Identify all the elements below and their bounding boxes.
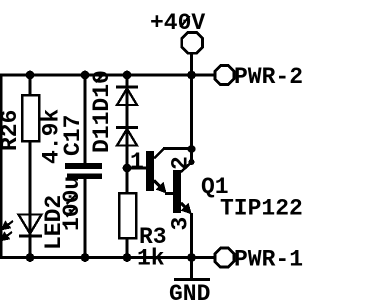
transistor Q1 base bar (first)	[146, 151, 154, 191]
junction dot top rail at collector	[187, 71, 196, 80]
LED LED2	[19, 215, 43, 237]
svg-text:GND: GND	[169, 281, 210, 307]
svg-text:2: 2	[168, 156, 194, 170]
resistor R26	[22, 95, 39, 141]
svg-text:PWR-1: PWR-1	[234, 247, 303, 273]
wire bottom rail	[0, 256, 216, 259]
junction dot bottom rail at R3	[123, 253, 132, 262]
capacitor C17 top plate	[65, 163, 102, 169]
junction dot bottom rail at LED	[26, 253, 35, 262]
wire R26 column top	[29, 75, 32, 96]
diode D10	[116, 128, 138, 146]
svg-text:C17: C17	[60, 115, 86, 156]
label +40V zero slash	[181, 16, 190, 27]
wire diode column	[126, 75, 129, 194]
svg-text:+40V: +40V	[150, 10, 205, 36]
wire PWR-2 stub	[192, 74, 217, 77]
transistor Q1 collector path (first)	[154, 149, 192, 159]
capacitor C17 bottom plate	[67, 174, 102, 180]
wire +40V terminal stub	[191, 32, 194, 53]
ground symbol bar	[174, 278, 210, 281]
transistor Q1 emitter (first) with arrow	[154, 181, 165, 192]
svg-text:LED2: LED2	[41, 195, 67, 250]
svg-text:1k: 1k	[137, 246, 165, 272]
junction dot top rail at C17	[81, 71, 90, 80]
wire Q1 base	[127, 167, 147, 170]
label D11D10 zero slash	[96, 73, 106, 82]
wire emitter1 to base2	[165, 192, 174, 195]
wire left vertical edge	[0, 75, 3, 258]
svg-text:D11D10: D11D10	[89, 70, 115, 153]
wire R26 to LED2 and down	[29, 140, 32, 258]
junction dot base node	[123, 164, 132, 173]
label 100u zero slashes	[67, 208, 77, 217]
junction dot bottom rail at GND	[187, 253, 196, 262]
diode D11	[116, 87, 138, 105]
wire top rail	[0, 74, 192, 77]
terminal +40V octagon	[182, 32, 203, 53]
svg-text:1: 1	[130, 149, 144, 175]
resistor R3	[119, 193, 136, 238]
transistor Q1 emitter (second) with arrow	[181, 203, 190, 212]
svg-text:3: 3	[168, 217, 194, 231]
svg-text:PWR-2: PWR-2	[234, 64, 303, 90]
wire collector vertical	[190, 53, 193, 163]
terminal PWR-1 octagon	[215, 248, 234, 267]
junction dot top rail at diodes	[123, 71, 132, 80]
svg-text:TIP122: TIP122	[220, 196, 303, 222]
junction dot bottom rail at C17	[81, 253, 90, 262]
svg-text:R26: R26	[0, 110, 23, 151]
LED2 light arrows	[2, 221, 14, 240]
junction dot collector T	[188, 145, 196, 153]
transistor Q1 base bar (second)	[173, 170, 181, 213]
terminal PWR-2 octagon	[215, 66, 234, 85]
wire GND stub	[190, 258, 193, 280]
transistor Q1 collector diagonal (second)	[181, 162, 192, 172]
junction dot top rail at R26	[26, 71, 35, 80]
junction dot collector 2	[189, 159, 195, 165]
wire C17 column top	[84, 75, 87, 164]
wire R3 bottom	[126, 237, 129, 258]
wire C17 column bottom	[84, 178, 87, 258]
wire emitter vertical	[190, 213, 193, 258]
